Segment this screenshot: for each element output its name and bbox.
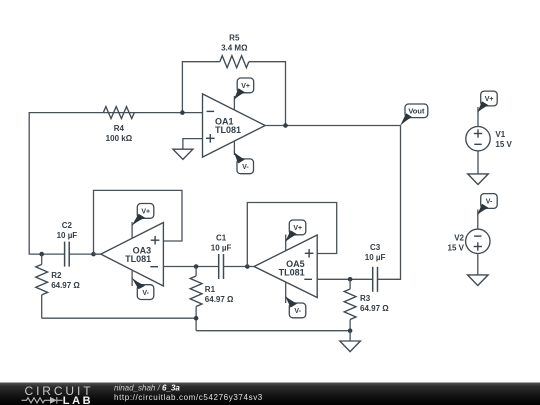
power stub V+ OA3 — [131, 222, 133, 238]
power stub V+ OA5 — [285, 235, 287, 252]
svg-text:TL081: TL081 — [215, 125, 241, 135]
svg-text:R2: R2 — [51, 271, 62, 280]
svg-text:15 V: 15 V — [495, 140, 512, 149]
power stub V- OA5 — [285, 282, 287, 303]
power stub V+ OA1 — [233, 96, 235, 110]
svg-text:V+: V+ — [241, 83, 250, 90]
svg-text:LAB: LAB — [63, 395, 93, 405]
flag V- OA5 — [285, 295, 306, 317]
op-amp U1 OA1 — [203, 94, 266, 157]
flag V+ OA5 — [285, 220, 306, 242]
logo zigzag and diode — [22, 397, 63, 404]
wire Vout vertical — [378, 126, 401, 280]
svg-text:3.4 MΩ: 3.4 MΩ — [221, 44, 248, 53]
node junction R1 top — [194, 264, 199, 269]
wire OA5 minus row — [317, 278, 373, 280]
wire input left loop — [29, 113, 202, 255]
svg-text:TL081: TL081 — [279, 267, 305, 277]
svg-text:Vout: Vout — [408, 107, 425, 116]
flag Vout — [400, 104, 428, 126]
ground at OA1 — [173, 149, 193, 159]
svg-text:15 V: 15 V — [448, 244, 465, 253]
wire V2 top stub — [477, 210, 479, 230]
node junction feedback-output — [283, 123, 288, 128]
wire OA5 feedback box — [247, 203, 336, 267]
ground at R3 — [349, 331, 351, 341]
capacitor C3 — [372, 267, 374, 292]
flag V+ OA3 — [131, 204, 154, 227]
svg-text:ninad_shah / 6_3a: ninad_shah / 6_3a — [114, 383, 180, 392]
svg-text:V-: V- — [486, 199, 493, 206]
footer bar — [0, 383, 540, 405]
resistor R1 — [195, 267, 197, 277]
wire OA3 feedback box — [94, 190, 183, 254]
resistor R4 — [103, 107, 134, 119]
op-amp U2 OA3 — [101, 223, 164, 287]
capacitor C2 — [64, 242, 66, 267]
svg-text:V2: V2 — [454, 234, 464, 243]
node junction R5 tap — [180, 110, 185, 115]
svg-text:10 µF: 10 µF — [57, 231, 78, 240]
wire R5 feedback loop — [182, 62, 219, 113]
svg-text:V+: V+ — [293, 225, 302, 232]
wire bottom row R2-R1 — [42, 317, 196, 319]
power stub V- OA1 — [233, 141, 235, 155]
svg-text:http://circuitlab.com/c54276y3: http://circuitlab.com/c54276y374sv3 — [114, 393, 263, 402]
svg-text:R5: R5 — [229, 34, 240, 43]
wire OA3 output stub — [94, 253, 101, 255]
svg-text:64.97 Ω: 64.97 Ω — [205, 295, 234, 304]
resistor R5 — [220, 56, 249, 68]
svg-text:C1: C1 — [216, 233, 227, 242]
wire OA1 plus to ground — [183, 139, 203, 150]
wire V1 bottom stub — [477, 151, 479, 174]
node junction C2-OA3 — [91, 252, 96, 257]
svg-text:V-: V- — [242, 164, 249, 171]
ground at V2 — [468, 275, 489, 286]
wire bottom jog row — [196, 330, 350, 332]
voltage source V2 — [466, 229, 490, 253]
svg-text:10 µF: 10 µF — [365, 253, 386, 262]
svg-text:R1: R1 — [205, 285, 216, 294]
svg-text:V-: V- — [142, 290, 149, 297]
flag V- V2 — [477, 194, 497, 216]
node junction R3 bottom — [348, 328, 353, 333]
op-amp U3 OA5 — [254, 235, 317, 298]
node junction R1 bottom — [194, 316, 199, 321]
resistor R2 — [41, 254, 43, 264]
wire C1 to OA5 — [224, 266, 255, 268]
svg-text:10 µF: 10 µF — [211, 243, 232, 252]
flag V- OA1 — [233, 151, 253, 173]
wire C2 left lead — [42, 253, 65, 255]
svg-text:R4: R4 — [114, 124, 125, 133]
ground at V1 — [468, 174, 489, 185]
svg-text:100 kΩ: 100 kΩ — [106, 134, 133, 143]
wire OA3 minus row — [163, 266, 218, 268]
svg-text:V-: V- — [294, 308, 301, 315]
wire OA1 output — [265, 125, 400, 127]
svg-text:64.97 Ω: 64.97 Ω — [51, 281, 80, 290]
flag V- OA3 — [131, 277, 154, 299]
svg-text:V+: V+ — [141, 209, 150, 216]
svg-text:R3: R3 — [360, 294, 371, 303]
node junction OA5 output — [245, 264, 250, 269]
svg-text:C2: C2 — [62, 221, 73, 230]
resistor R3 — [349, 279, 351, 289]
wire V1 top stub — [477, 107, 479, 127]
capacitor C1 — [218, 254, 220, 279]
svg-text:V+: V+ — [485, 96, 494, 103]
svg-text:V1: V1 — [495, 130, 505, 139]
voltage source V1 — [466, 127, 490, 151]
node junction R3 top — [348, 277, 353, 282]
power stub V- OA3 — [131, 270, 133, 286]
node junction R2 top — [39, 252, 44, 257]
svg-text:C3: C3 — [370, 243, 381, 252]
flag V+ V1 — [477, 91, 497, 113]
wire C2 right lead — [69, 253, 101, 255]
svg-text:TL081: TL081 — [125, 254, 151, 264]
flag V+ OA1 — [234, 78, 254, 100]
svg-text:64.97 Ω: 64.97 Ω — [360, 304, 389, 313]
wire V2 bottom stub — [477, 254, 479, 275]
